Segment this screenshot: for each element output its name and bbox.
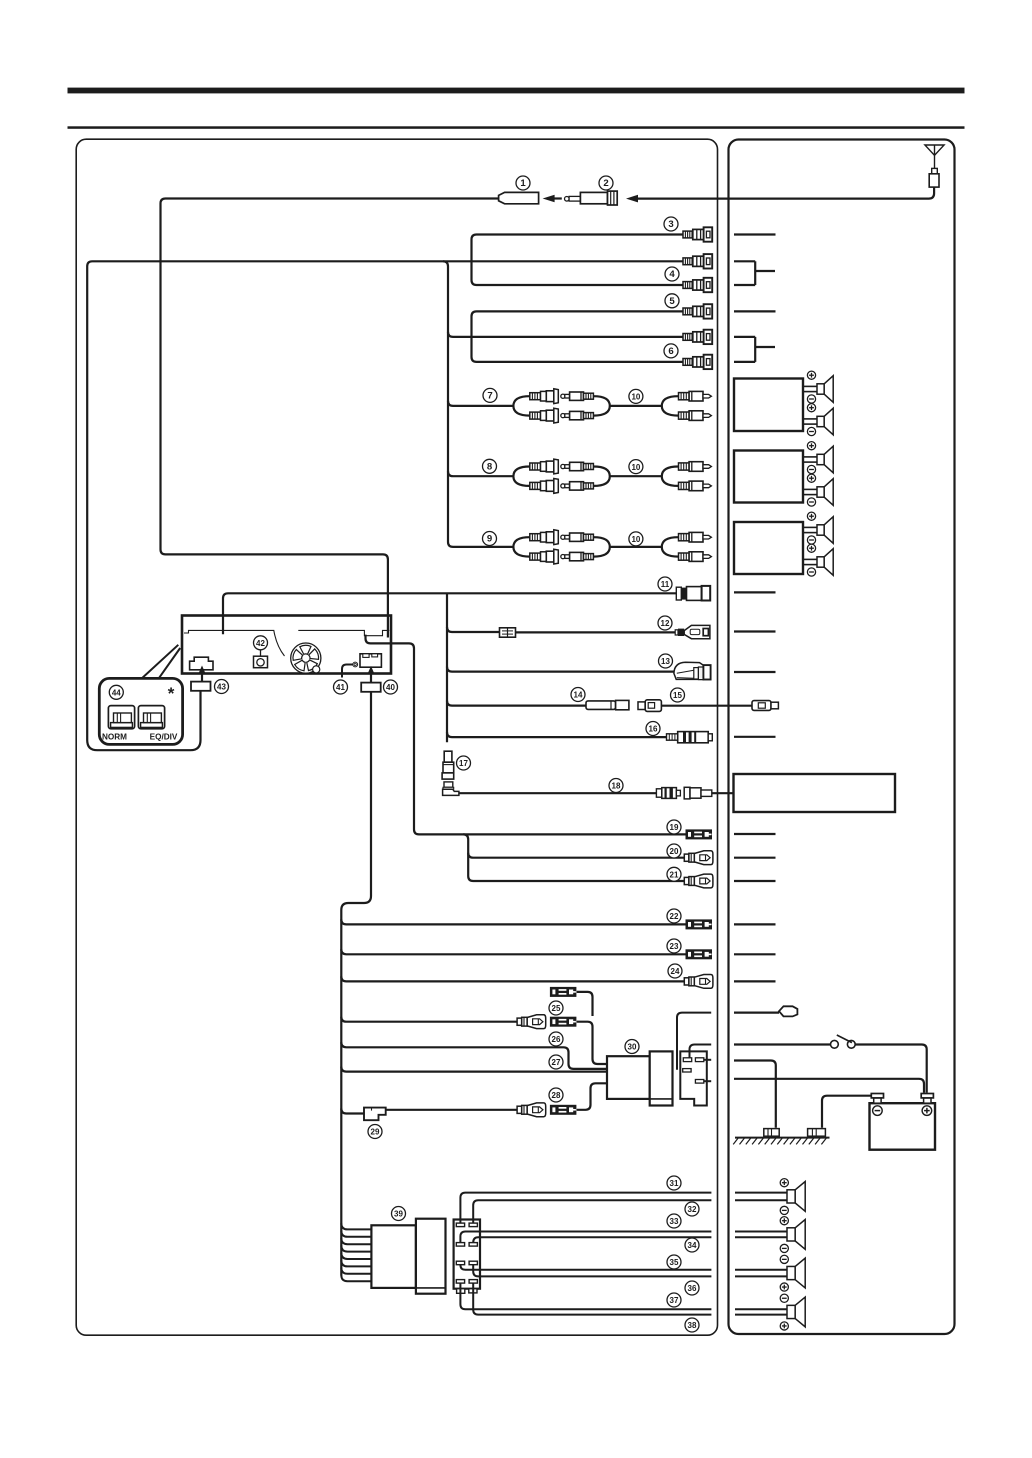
label circle 38 (685, 1318, 699, 1332)
wire from pair 28 to connector 30 (577, 1083, 607, 1110)
stub line 21 (734, 880, 776, 882)
branch wire 13 (447, 667, 674, 672)
U cable joining plugs 5 and 6 (472, 311, 684, 362)
branch wire to bullet pair 25 (341, 1017, 517, 1022)
branch wire 12 (447, 627, 500, 632)
label circle 31 (667, 1176, 681, 1190)
socket pin d (695, 1080, 703, 1084)
stub line 13 (734, 671, 776, 673)
RCA extension cable group 7 (513, 389, 711, 423)
lead to label 41 (342, 665, 353, 678)
speaker wire 31 (460, 1193, 711, 1224)
rear speaker 2 (735, 1217, 805, 1253)
speaker amp3 top (803, 512, 833, 544)
speaker amp3 bottom (803, 544, 833, 576)
svg-text:16: 16 (649, 725, 658, 734)
RCA extension cable group 9 (513, 530, 711, 564)
svg-text:8: 8 (487, 462, 493, 473)
battery plus symbol (922, 1106, 932, 1116)
switch box 44 (99, 678, 182, 744)
car antenna symbol (925, 145, 944, 187)
label circle 3 (664, 217, 678, 231)
plug 15 right half (752, 701, 778, 711)
label circle 17 (457, 756, 471, 770)
spade terminal 23 (686, 950, 712, 959)
U cable joining plugs 3 and 4 (472, 235, 684, 286)
svg-text:23: 23 (670, 942, 679, 951)
inline connector 14 (586, 700, 629, 709)
svg-text:17: 17 (459, 759, 468, 768)
fused lead into socket (677, 1013, 711, 1070)
svg-text:18: 18 (612, 782, 621, 791)
insulated terminal (779, 1006, 797, 1016)
arrow 40 to socket (370, 673, 372, 682)
label circle 10 (629, 460, 643, 474)
wire from pair 25 to connector 30 (577, 1022, 607, 1064)
plug 16 (667, 732, 713, 743)
ground lug 1 (764, 1129, 779, 1137)
upper bullet terminal (550, 987, 576, 996)
speaker wire 36 (473, 1265, 711, 1277)
label circle 42 (254, 636, 268, 650)
label circle 14 (571, 688, 585, 702)
vehicle connector for 39 (454, 1220, 480, 1294)
speaker amp2 bottom (803, 474, 833, 506)
branch wire to cable group 8 (448, 471, 513, 476)
input bracket rows 5b/6 (734, 336, 755, 338)
left diagram panel frame (76, 139, 717, 1335)
battery minus symbol (873, 1106, 883, 1116)
connector 39 block B (416, 1219, 446, 1294)
socket stub wires (704, 1059, 711, 1061)
speaker wire 35 (460, 1265, 711, 1270)
label circle 11 (658, 577, 672, 591)
RCA plug row 4 (683, 278, 712, 292)
harness branch vertical (443, 261, 513, 547)
rear speaker 1 (735, 1179, 805, 1215)
label circle 15 (671, 688, 685, 702)
ignition switch wire left (734, 1043, 830, 1045)
label circle 34 (685, 1238, 699, 1252)
branch wire 16 (447, 732, 667, 737)
svg-text:43: 43 (217, 683, 226, 692)
ignition switch (831, 1035, 856, 1048)
stub line 23 (734, 953, 776, 955)
svg-text:EQ/DIV: EQ/DIV (150, 733, 178, 742)
svg-text:27: 27 (552, 1058, 561, 1067)
antenna socket plug 1 (499, 192, 539, 203)
wire 18 into processor box (712, 792, 734, 794)
bullet pair 28 left (517, 1103, 546, 1117)
svg-text:10: 10 (631, 463, 640, 472)
svg-text:41: 41 (336, 683, 345, 692)
plug 13 antenna adapter (674, 662, 711, 679)
svg-text:25: 25 (552, 1004, 561, 1013)
label circle 12 (658, 616, 672, 630)
stub line 19 (734, 833, 776, 835)
antenna lead wire (638, 187, 935, 199)
svg-text:5: 5 (669, 296, 675, 307)
svg-text:11: 11 (661, 580, 670, 589)
svg-text:19: 19 (670, 823, 679, 832)
stub line 11 (734, 591, 776, 593)
svg-text:31: 31 (670, 1179, 679, 1188)
harness fan into connector 39 (341, 1223, 371, 1229)
svg-text:37: 37 (670, 1296, 679, 1305)
wire 29 to pair 28 (386, 1109, 517, 1111)
label circle 33 (667, 1214, 681, 1228)
label circle 27 (549, 1055, 563, 1069)
svg-text:13: 13 (661, 657, 670, 666)
branch wire 22 (341, 919, 686, 924)
processor box (734, 774, 896, 812)
svg-text:40: 40 (386, 683, 395, 692)
RCA plug row 6 (683, 355, 712, 369)
svg-text:9: 9 (487, 534, 492, 545)
svg-text:35: 35 (670, 1258, 679, 1267)
switch EQ/DIV (138, 706, 164, 729)
label circle 10 (629, 532, 643, 546)
svg-text:*: * (168, 684, 175, 703)
stub line 16 (734, 736, 776, 738)
socket pin a (683, 1058, 691, 1062)
svg-text:15: 15 (673, 691, 682, 700)
label circle 4 (665, 267, 679, 281)
RCA plug row 3 (683, 227, 712, 241)
RCA plug row 5b (683, 330, 712, 344)
branch wire 20 (468, 853, 684, 858)
antenna adapter plug 2 (565, 191, 618, 205)
svg-text:6: 6 (668, 346, 673, 357)
svg-text:NORM: NORM (102, 733, 127, 742)
label circle 19 (667, 820, 681, 834)
label circle 40 (384, 680, 398, 694)
label circle 22 (667, 909, 681, 923)
speaker wire 38 (473, 1283, 711, 1315)
ground screw (353, 662, 358, 667)
bullet pair 25 left (517, 1015, 546, 1029)
ignition switch wire right to battery (855, 1045, 926, 1093)
branch vertical to wires 20/21 (463, 834, 684, 881)
chassis ground (735, 1137, 830, 1139)
bullet pair 28 right (550, 1105, 576, 1114)
label circle 28 (549, 1088, 563, 1102)
label circle 37 (667, 1293, 681, 1307)
svg-text:20: 20 (670, 847, 679, 856)
wire 15 (661, 705, 752, 707)
plug 15 left half (638, 700, 661, 712)
RCA extension cable group 8 (513, 459, 711, 493)
svg-text:10: 10 (631, 393, 640, 402)
callout pointer lines (142, 645, 181, 679)
input bracket rows 3b/4 (734, 260, 755, 262)
speaker wire 37 (460, 1283, 711, 1309)
head unit right socket (360, 654, 381, 667)
connector 39 pins row (456, 1261, 464, 1265)
label circle 1 (516, 176, 530, 190)
label circle 44 (109, 685, 123, 699)
lead from socket pin to switch wire (690, 1045, 712, 1058)
spade terminal 22 (686, 920, 712, 929)
svg-text:39: 39 (394, 1210, 403, 1219)
svg-text:14: 14 (574, 691, 583, 700)
label circle 29 (368, 1125, 382, 1139)
connector 39 pins row (456, 1280, 464, 1284)
bus connector 42 icon (254, 649, 268, 667)
label circle 8 (483, 459, 497, 473)
label circle 18 (609, 779, 623, 793)
branch wire 26 (341, 1042, 607, 1069)
connector 39 pins row (456, 1243, 464, 1247)
svg-text:2: 2 (603, 178, 608, 189)
connector 40 (361, 683, 381, 692)
ground lug 2 (808, 1129, 826, 1137)
spade terminal 21 (684, 874, 713, 888)
socket pin c (683, 1069, 691, 1072)
inline connectors 18 (656, 787, 711, 799)
speaker amp1 bottom (803, 404, 833, 436)
spade terminal 24 (684, 975, 713, 989)
speaker amp2 top (803, 442, 833, 474)
wire 18 (459, 792, 657, 794)
rear speaker 3 (735, 1255, 805, 1291)
svg-text:3: 3 (668, 219, 673, 230)
branch wire 27 (341, 1067, 607, 1072)
branch wire 14 (447, 701, 586, 706)
label circle 39 (392, 1207, 406, 1221)
label circle 2 (599, 176, 613, 190)
svg-text:22: 22 (670, 912, 679, 921)
connector 39 block A (371, 1225, 416, 1288)
rear speaker 4 (735, 1294, 805, 1330)
svg-text:4: 4 (669, 269, 675, 280)
title bar thick rule (68, 88, 965, 94)
head unit rear view (182, 616, 391, 674)
arrow from plug 2 to plug 1 (543, 195, 555, 203)
svg-text:24: 24 (671, 967, 680, 976)
amplifier box 3 (734, 522, 803, 574)
arrow 43 to socket (201, 673, 203, 682)
label circle 43 (215, 680, 229, 694)
plug 12 USB (675, 625, 710, 638)
spade terminal 19 (686, 830, 712, 839)
upper bullet lead to 30 (577, 992, 593, 1016)
label circle 41 (334, 680, 348, 694)
RCA plug row 3b (683, 254, 712, 268)
branch wire to row between 5 and 6 (448, 332, 683, 337)
svg-text:21: 21 (670, 871, 679, 880)
speaker wire 32 (473, 1200, 711, 1223)
plug 11 (676, 586, 710, 601)
antenna cable from head unit to plug 1 (161, 199, 499, 638)
connector 30 shell (650, 1051, 673, 1105)
spade terminal 20 (684, 851, 713, 865)
label circle 9 (483, 532, 497, 546)
label circle 36 (685, 1281, 699, 1295)
bullet pair 25 right (550, 1017, 576, 1026)
cooling fan (291, 643, 321, 673)
label circle 25 (549, 1001, 563, 1015)
stub line 12 (734, 630, 776, 632)
label circle 35 (667, 1255, 681, 1269)
input stub line row 3 (734, 233, 776, 235)
svg-text:34: 34 (688, 1241, 697, 1250)
arrow into plug 2 (626, 195, 638, 203)
svg-text:32: 32 (688, 1205, 697, 1214)
harness vertical feeding 12-17 (446, 593, 448, 742)
stub line 24 (734, 980, 776, 982)
fused battery lead wire (734, 1011, 779, 1013)
svg-text:36: 36 (688, 1284, 697, 1293)
speaker wire 33 (460, 1232, 711, 1243)
branch wire to cable group 7 (448, 401, 513, 406)
switch NORM (108, 706, 134, 729)
label circle 32 (685, 1202, 699, 1216)
input stub line row 5 (734, 310, 776, 312)
harness wire from unit to spade 19 (366, 635, 687, 835)
svg-text:10: 10 (631, 535, 640, 544)
label circle 24 (668, 964, 682, 978)
svg-text:12: 12 (661, 619, 670, 628)
label circle 23 (667, 939, 681, 953)
harness cable from connector 43 wrapping left side to RCA row (87, 261, 683, 750)
vehicle socket for 30 (680, 1051, 707, 1105)
label circle 30 (625, 1040, 639, 1054)
svg-text:28: 28 (552, 1091, 561, 1100)
svg-text:42: 42 (256, 639, 265, 648)
branch wire 23 (341, 949, 686, 954)
svg-text:38: 38 (688, 1321, 697, 1330)
label circle 10 (629, 389, 643, 403)
svg-text:26: 26 (552, 1035, 561, 1044)
amplifier box 1 (734, 379, 803, 432)
stub line 22 (734, 923, 776, 925)
connector 43 (191, 682, 211, 691)
battery minus lead to ground (822, 1096, 871, 1128)
cable from connector 40 down left (341, 692, 371, 1276)
connector 30 plug body (607, 1056, 650, 1099)
svg-text:30: 30 (628, 1043, 637, 1052)
inline connector on wire 12 (500, 628, 516, 637)
right diagram panel frame (729, 140, 955, 1335)
head unit chassis top line (184, 630, 285, 656)
branch into connector 29 (341, 1109, 364, 1114)
branch wire 24 (341, 976, 684, 981)
speaker amp1 top (803, 371, 833, 403)
speaker wire 34 (473, 1237, 711, 1242)
ground wire (734, 1061, 776, 1128)
label circle 6 (664, 344, 678, 358)
RCA plug row 5 (683, 304, 712, 318)
head unit left socket (190, 657, 213, 670)
svg-text:29: 29 (371, 1128, 380, 1137)
label circle 20 (667, 844, 681, 858)
plug 17 vertical (442, 751, 454, 779)
label circle 13 (659, 654, 673, 668)
harness wire from unit top to plug 11 (223, 593, 676, 634)
svg-text:44: 44 (112, 689, 121, 698)
amplifier box 2 (734, 451, 803, 503)
connector 39 pins row (456, 1223, 464, 1227)
stub line 20 (734, 857, 776, 859)
socket pin b (695, 1058, 703, 1062)
svg-text:7: 7 (487, 391, 492, 402)
connector 29 (364, 1108, 386, 1121)
svg-text:1: 1 (520, 178, 526, 189)
svg-text:33: 33 (670, 1217, 679, 1226)
header thin rule (68, 126, 965, 129)
battery wire (734, 1079, 924, 1093)
battery (870, 1094, 936, 1150)
label circle 5 (665, 294, 679, 308)
label circle 26 (549, 1032, 563, 1046)
right angle plug 18 (443, 782, 459, 796)
label circle 21 (667, 867, 681, 881)
label circle 16 (646, 722, 660, 736)
label circle 7 (483, 388, 497, 402)
